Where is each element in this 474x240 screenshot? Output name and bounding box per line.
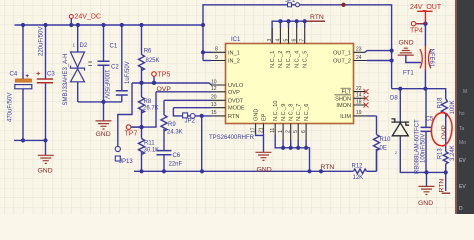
svg-text:R13: R13: [437, 148, 443, 160]
svg-text:TP4: TP4: [410, 28, 423, 35]
svg-text:JP1: JP1: [285, 0, 296, 4]
svg-text:5: 5: [283, 39, 289, 42]
svg-text:M: M: [463, 89, 467, 95]
svg-text:5: 5: [293, 130, 299, 133]
svg-text:2: 2: [286, 130, 292, 133]
svg-text:RTN: RTN: [321, 164, 335, 171]
svg-text:TPS26400RHFR: TPS26400RHFR: [209, 135, 255, 141]
svg-text:1uF/50V: 1uF/50V: [125, 61, 131, 84]
svg-text:C6: C6: [173, 153, 181, 159]
svg-text:GND: GND: [96, 131, 111, 138]
svg-text:N.C._3: N.C._3: [286, 51, 292, 68]
svg-text:C3: C3: [47, 72, 55, 78]
svg-text:SMBJ33AHE3_A-H: SMBJ33AHE3_A-H: [63, 53, 69, 105]
svg-text:1: 1: [278, 130, 284, 133]
svg-text:R18: R18: [438, 97, 444, 109]
svg-text:OVP: OVP: [228, 90, 240, 96]
svg-text:N.C._9: N.C._9: [281, 104, 287, 121]
svg-text:GND: GND: [257, 167, 272, 174]
svg-text:R9: R9: [168, 122, 176, 128]
svg-text:EV: EV: [459, 158, 466, 164]
svg-text:TP7: TP7: [125, 131, 138, 138]
svg-text:D8: D8: [390, 96, 398, 102]
svg-text:D: D: [459, 206, 463, 212]
svg-text:N.C._8: N.C._8: [289, 104, 295, 121]
svg-text:10: 10: [211, 79, 217, 85]
svg-text:22nF: 22nF: [169, 162, 183, 168]
svg-text:EP: EP: [261, 113, 267, 121]
svg-text:6: 6: [292, 39, 298, 42]
svg-text:UVLO: UVLO: [228, 83, 244, 89]
svg-text:24: 24: [356, 55, 362, 61]
svg-text:6: 6: [301, 130, 307, 133]
svg-text:R8: R8: [144, 99, 152, 105]
svg-text:220uF/50V: 220uF/50V: [39, 27, 45, 56]
svg-text:IN_2: IN_2: [228, 59, 240, 65]
svg-text:D2: D2: [80, 43, 88, 49]
svg-text:24V_OUT: 24V_OUT: [410, 4, 442, 11]
svg-text:GND: GND: [399, 40, 414, 47]
svg-text:ILIM: ILIM: [340, 114, 351, 120]
svg-text:23: 23: [356, 47, 362, 53]
svg-text:21: 21: [258, 127, 264, 133]
svg-text:100nF/50V: 100nF/50V: [103, 70, 109, 99]
svg-text:12K: 12K: [353, 175, 364, 181]
svg-text:IMON: IMON: [336, 103, 351, 109]
svg-text:MODE: MODE: [228, 106, 245, 112]
svg-text:SHDN: SHDN: [335, 96, 351, 102]
svg-text:OUT_2: OUT_2: [333, 59, 351, 65]
svg-text:FT1: FT1: [403, 71, 414, 77]
svg-text:RTN: RTN: [310, 14, 324, 21]
svg-text:20: 20: [211, 95, 217, 101]
svg-text:Ta: Ta: [459, 126, 465, 132]
svg-text:14: 14: [356, 93, 362, 99]
svg-text:EV: EV: [459, 184, 466, 190]
svg-text:OUT_1: OUT_1: [333, 50, 351, 56]
svg-text:JP13: JP13: [119, 159, 133, 165]
svg-text:R12: R12: [352, 163, 364, 169]
svg-text:RTN: RTN: [228, 114, 239, 120]
svg-text:4: 4: [275, 39, 281, 42]
svg-text:N.C._6: N.C._6: [304, 104, 310, 121]
svg-text:TP5: TP5: [158, 72, 171, 79]
svg-text:C2: C2: [111, 65, 119, 71]
svg-text:17: 17: [251, 127, 257, 133]
svg-text:ho: ho: [459, 111, 465, 117]
svg-text:24.3K: 24.3K: [167, 129, 183, 135]
svg-text:13: 13: [211, 102, 217, 108]
svg-text:IC1: IC1: [231, 37, 241, 43]
svg-text:11: 11: [270, 128, 276, 133]
svg-text:22: 22: [356, 86, 362, 92]
svg-text:RTN: RTN: [438, 179, 445, 193]
svg-text:N.C._1: N.C._1: [270, 51, 276, 68]
svg-text:19: 19: [356, 110, 362, 116]
svg-text:R11: R11: [144, 140, 155, 146]
svg-text:3: 3: [267, 39, 273, 42]
svg-text:R6: R6: [144, 49, 152, 55]
svg-text:IN_1: IN_1: [228, 50, 240, 56]
svg-text:470uF/50V: 470uF/50V: [8, 93, 14, 122]
svg-text:7: 7: [300, 39, 306, 42]
svg-text:825K: 825K: [146, 58, 160, 64]
svg-text:26.7K: 26.7K: [143, 106, 159, 112]
svg-text:GND: GND: [418, 200, 433, 207]
svg-text:N.C._10: N.C._10: [273, 100, 279, 121]
svg-text:N.C._7: N.C._7: [296, 104, 302, 121]
svg-text:R10: R10: [380, 137, 392, 143]
svg-text:C1: C1: [110, 44, 118, 50]
svg-text:8: 8: [215, 47, 218, 53]
svg-text:3.24K: 3.24K: [450, 145, 456, 161]
svg-text:DVDT: DVDT: [228, 98, 244, 104]
svg-text:N.C._5: N.C._5: [302, 51, 308, 68]
svg-text:JP2: JP2: [185, 119, 196, 125]
svg-text:N.C._2: N.C._2: [278, 51, 284, 68]
svg-text:Mo: Mo: [459, 140, 466, 146]
svg-text:9: 9: [215, 55, 218, 61]
svg-text:OVP: OVP: [157, 86, 172, 93]
svg-text:100nF/50V: 100nF/50V: [421, 134, 427, 163]
svg-text:100K: 100K: [450, 100, 456, 114]
svg-text:GND: GND: [38, 168, 53, 175]
svg-text:24V_DC: 24V_DC: [75, 14, 101, 21]
svg-text:OVP: OVP: [441, 125, 448, 140]
svg-text:C4: C4: [10, 72, 18, 78]
svg-text:18: 18: [356, 99, 362, 105]
svg-text:GND: GND: [254, 109, 260, 121]
svg-text:NFE61: NFE61: [428, 49, 434, 68]
svg-text:15: 15: [211, 110, 217, 116]
svg-text:0E: 0E: [380, 146, 387, 152]
svg-text:12: 12: [211, 86, 217, 92]
svg-text:N.C._4: N.C._4: [294, 51, 300, 68]
